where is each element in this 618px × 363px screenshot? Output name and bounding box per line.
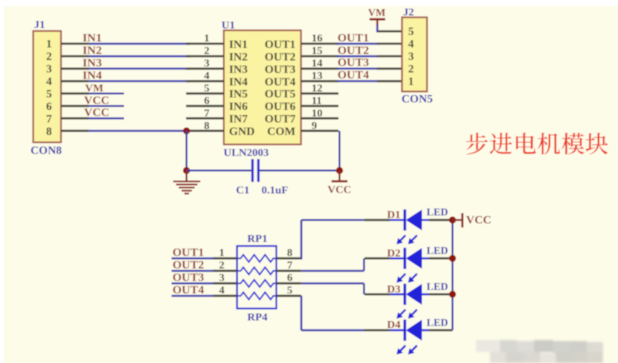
svg-text:10: 10 bbox=[312, 107, 324, 119]
wire RP pin6 right bbox=[301, 282, 364, 284]
svg-text:OUT3: OUT3 bbox=[265, 63, 296, 76]
svg-text:OUT4: OUT4 bbox=[173, 282, 205, 296]
J1 pin 1 stub bbox=[61, 43, 89, 45]
J2 pin stub row OUT2 bbox=[377, 55, 402, 57]
svg-text:VM: VM bbox=[368, 8, 386, 19]
svg-text:LED: LED bbox=[427, 246, 449, 257]
svg-text:7: 7 bbox=[46, 113, 52, 125]
svg-text:IN5: IN5 bbox=[229, 88, 248, 101]
svg-text:3: 3 bbox=[46, 64, 52, 76]
svg-text:IN4: IN4 bbox=[229, 75, 248, 88]
wire COM drop bbox=[339, 131, 341, 171]
U1 pin 14 stub bbox=[301, 67, 339, 69]
svg-text:VCC: VCC bbox=[84, 106, 109, 119]
wire net OUT3 top bbox=[337, 68, 378, 70]
svg-text:2: 2 bbox=[408, 64, 414, 76]
wire GND vertical bbox=[186, 131, 188, 171]
wire RP pin7 up bbox=[363, 258, 365, 271]
svg-text:C1: C1 bbox=[236, 184, 249, 196]
junction dot D3 rail bbox=[449, 291, 456, 298]
svg-text:RP1: RP1 bbox=[247, 233, 267, 245]
svg-text:6: 6 bbox=[46, 101, 52, 113]
svg-text:LED: LED bbox=[427, 318, 449, 329]
svg-text:8: 8 bbox=[204, 120, 210, 132]
svg-text:8: 8 bbox=[46, 126, 52, 138]
wire net IN4 bbox=[89, 80, 191, 82]
svg-text:OUT2: OUT2 bbox=[265, 50, 296, 63]
svg-text:OUT4: OUT4 bbox=[265, 75, 296, 88]
U1 pin 1 stub bbox=[186, 43, 224, 45]
svg-text:1: 1 bbox=[219, 247, 225, 259]
J2 pin stub row OUT1 bbox=[377, 43, 402, 45]
svg-text:VCC: VCC bbox=[466, 214, 491, 227]
wire net OUT1 bottom bbox=[172, 257, 215, 259]
ground symbol bbox=[186, 171, 188, 181]
svg-text:0.1uF: 0.1uF bbox=[262, 184, 289, 196]
RP1 left pin 1 stub bbox=[213, 257, 237, 259]
RP1 left pin 2 stub bbox=[213, 270, 237, 272]
J1 pin 3 stub bbox=[61, 67, 89, 69]
capacitor C1 plates bbox=[251, 159, 253, 182]
svg-text:COM: COM bbox=[267, 125, 295, 138]
svg-text:D3: D3 bbox=[387, 283, 401, 295]
svg-text:6: 6 bbox=[204, 95, 210, 107]
svg-text:IN3: IN3 bbox=[229, 63, 248, 76]
U1 pin 6 stub bbox=[186, 105, 224, 107]
svg-text:1: 1 bbox=[46, 39, 52, 51]
U1 pin 8 stub bbox=[186, 130, 224, 132]
svg-text:2: 2 bbox=[219, 260, 225, 272]
svg-text:16: 16 bbox=[312, 33, 324, 45]
wire VM drop to J2 pin5 bbox=[376, 24, 378, 32]
wire D4 feed bbox=[301, 329, 365, 331]
svg-text:IN6: IN6 bbox=[229, 100, 248, 113]
svg-text:5: 5 bbox=[204, 82, 210, 94]
svg-text:RP4: RP4 bbox=[247, 311, 268, 323]
LED D3 bbox=[365, 293, 390, 295]
U1 pin 12 stub bbox=[301, 92, 339, 94]
svg-text:3: 3 bbox=[204, 58, 210, 70]
power symbol VM stem bbox=[376, 19, 378, 25]
connector J1 body bbox=[33, 31, 61, 142]
power symbol VM bar bbox=[370, 18, 386, 20]
wire C1 right to VCC node bbox=[260, 170, 340, 172]
resistor RP1 element 1 bbox=[237, 255, 276, 262]
svg-text:3: 3 bbox=[408, 51, 414, 63]
svg-text:IN4: IN4 bbox=[83, 68, 102, 82]
wire net OUT2 bottom bbox=[172, 270, 215, 272]
svg-text:11: 11 bbox=[312, 95, 322, 107]
resistor pack RP1 body bbox=[237, 246, 276, 309]
J1 pin 6 stub bbox=[61, 105, 89, 107]
wire ground node to C1 left bbox=[187, 170, 252, 172]
svg-text:LED: LED bbox=[427, 282, 449, 293]
svg-text:D2: D2 bbox=[387, 247, 401, 259]
svg-text:3: 3 bbox=[219, 272, 225, 284]
svg-text:14: 14 bbox=[312, 58, 324, 70]
svg-text:J2: J2 bbox=[403, 6, 415, 18]
svg-text:OUT1: OUT1 bbox=[265, 38, 296, 51]
J2 pin stub row OUT3 bbox=[377, 67, 402, 69]
svg-text:9: 9 bbox=[312, 120, 318, 132]
wire RP pin5 down bbox=[300, 296, 302, 330]
svg-text:4: 4 bbox=[46, 76, 52, 88]
svg-text:CON8: CON8 bbox=[31, 145, 63, 157]
svg-text:12: 12 bbox=[312, 82, 324, 94]
svg-text:VCC: VCC bbox=[84, 94, 109, 107]
svg-text:D4: D4 bbox=[387, 319, 401, 331]
U1 pin 3 stub bbox=[186, 67, 224, 69]
wire net VM stub bbox=[89, 93, 125, 95]
svg-text:2: 2 bbox=[46, 51, 52, 63]
svg-text:13: 13 bbox=[312, 70, 324, 82]
wire net IN2 bbox=[89, 55, 191, 57]
junction dot at U1 pin8 bbox=[183, 127, 190, 134]
wire net VCC pin6 bbox=[89, 105, 125, 107]
svg-text:5: 5 bbox=[287, 285, 293, 297]
junction dot at ground node bbox=[183, 167, 190, 174]
power symbol VCC right bar bbox=[461, 213, 463, 228]
svg-text:ULN2003: ULN2003 bbox=[224, 147, 270, 159]
resistor RP1 element 3 bbox=[237, 280, 276, 287]
svg-text:IN2: IN2 bbox=[229, 50, 248, 63]
junction dot D1 rail bbox=[449, 217, 456, 224]
svg-text:4: 4 bbox=[219, 285, 225, 297]
op-chip U1 body bbox=[224, 30, 301, 144]
junction dot D2 rail bbox=[449, 255, 456, 262]
LED D4 bbox=[365, 329, 390, 331]
svg-text:OUT6: OUT6 bbox=[265, 100, 296, 113]
connector J2 body bbox=[402, 17, 427, 91]
svg-text:5: 5 bbox=[408, 26, 414, 38]
U1 pin 9 stub bbox=[301, 130, 339, 132]
U1 pin 13 stub bbox=[301, 80, 339, 82]
junction dot at VCC node bbox=[336, 167, 343, 174]
wire net OUT3 bottom bbox=[172, 282, 215, 284]
svg-text:OUT5: OUT5 bbox=[265, 88, 296, 101]
wire GND net J1 pin8 to junction bbox=[89, 130, 187, 132]
U1 pin 10 stub bbox=[301, 117, 339, 119]
wire net IN1 bbox=[89, 43, 191, 45]
svg-text:VCC: VCC bbox=[328, 184, 352, 196]
svg-text:D1: D1 bbox=[387, 209, 400, 221]
svg-text:OUT4: OUT4 bbox=[338, 68, 370, 82]
RP1 right pin 5 stub bbox=[276, 295, 301, 297]
U1 pin 16 stub bbox=[301, 43, 339, 45]
J1 pin 2 stub bbox=[61, 55, 89, 57]
svg-text:J1: J1 bbox=[34, 19, 45, 31]
svg-text:U1: U1 bbox=[222, 19, 235, 31]
U1 pin 4 stub bbox=[186, 80, 224, 82]
svg-text:CON5: CON5 bbox=[402, 94, 434, 106]
svg-text:2: 2 bbox=[204, 45, 210, 57]
svg-text:IN1: IN1 bbox=[229, 38, 248, 51]
svg-text:4: 4 bbox=[408, 39, 414, 51]
U1 pin 7 stub bbox=[186, 117, 224, 119]
U1 pin 15 stub bbox=[301, 55, 339, 57]
RP1 left pin 4 stub bbox=[213, 295, 237, 297]
wire RP pin7 right bbox=[301, 270, 364, 272]
svg-text:5: 5 bbox=[46, 88, 52, 100]
J1 pin 5 stub bbox=[61, 92, 89, 94]
wire net VCC pin7 bbox=[89, 117, 125, 119]
RP1 right pin 7 stub bbox=[276, 270, 301, 272]
svg-text:GND: GND bbox=[229, 125, 255, 138]
svg-text:OUT7: OUT7 bbox=[265, 113, 296, 126]
wire net IN3 bbox=[89, 68, 191, 70]
RP1 right pin 8 stub bbox=[276, 257, 301, 259]
U1 pin 2 stub bbox=[186, 55, 224, 57]
wire net OUT4 bottom bbox=[172, 295, 215, 297]
power symbol VCC bottom stem bbox=[339, 171, 341, 182]
wire RP pin8 up to D1 row bbox=[300, 220, 302, 259]
wire D1 feed bbox=[301, 219, 365, 221]
RP1 right pin 6 stub bbox=[276, 282, 301, 284]
resistor RP1 element 4 bbox=[237, 292, 276, 299]
U1 pin 11 stub bbox=[301, 105, 339, 107]
LED D2 bbox=[365, 257, 390, 259]
power symbol VCC bottom bar bbox=[332, 180, 348, 182]
J1 pin 8 stub bbox=[61, 130, 89, 132]
RP1 left pin 3 stub bbox=[213, 282, 237, 284]
wire RP pin6 down bbox=[363, 283, 365, 294]
svg-text:8: 8 bbox=[287, 247, 293, 259]
wire net OUT2 top bbox=[337, 55, 378, 57]
U1 pin 5 stub bbox=[186, 92, 224, 94]
J2 pin stub row OUT4 bbox=[377, 80, 402, 82]
svg-text:IN7: IN7 bbox=[229, 113, 248, 126]
LED D1 bbox=[365, 219, 390, 221]
svg-text:1: 1 bbox=[408, 76, 414, 88]
wire VCC rail vertical bbox=[452, 220, 454, 330]
J2 pin 5 stub bbox=[377, 30, 402, 32]
svg-text:4: 4 bbox=[204, 70, 210, 82]
title text 步进电机模块 bbox=[466, 133, 488, 155]
resistor RP1 element 2 bbox=[237, 267, 276, 274]
svg-text:LED: LED bbox=[427, 208, 449, 219]
wire net OUT4 top bbox=[337, 80, 378, 82]
J1 pin 7 stub bbox=[61, 117, 89, 119]
svg-text:15: 15 bbox=[312, 45, 324, 57]
svg-text:7: 7 bbox=[204, 107, 210, 119]
power symbol VCC right stem bbox=[453, 219, 462, 221]
svg-text:6: 6 bbox=[287, 272, 293, 284]
J1 pin 4 stub bbox=[61, 80, 89, 82]
watermark blocks bbox=[476, 340, 603, 363]
wire net OUT1 top bbox=[337, 43, 378, 45]
svg-text:7: 7 bbox=[287, 260, 293, 272]
svg-text:1: 1 bbox=[204, 33, 210, 45]
svg-text:VM: VM bbox=[85, 82, 104, 94]
